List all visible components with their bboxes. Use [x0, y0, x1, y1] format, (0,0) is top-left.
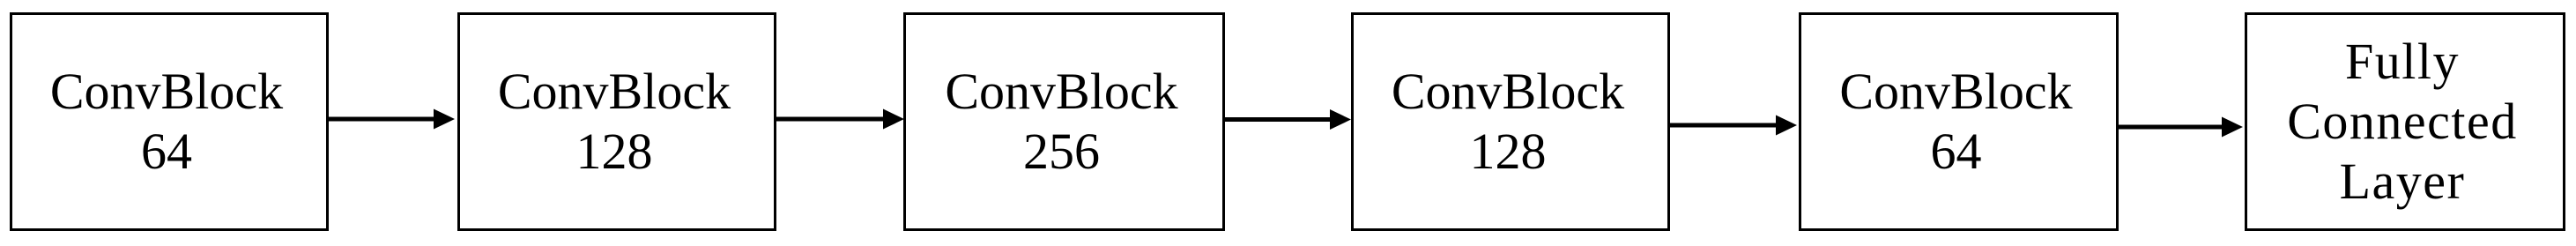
block Fully Connected Layer: [2245, 12, 2565, 231]
arrow 4: ConvBlock 128 to ConvBlock 64: [1667, 116, 1797, 136]
block ConvBlock 128 (second): [457, 12, 776, 231]
block ConvBlock 64 (first): [10, 12, 329, 231]
block ConvBlock 64 (fifth): [1799, 12, 2119, 231]
arrow 3: ConvBlock 256 to ConvBlock 128: [1222, 109, 1351, 130]
arrow 2: ConvBlock 128 to ConvBlock 256: [775, 109, 904, 130]
arrow 1: ConvBlock 64 to ConvBlock 128: [327, 109, 455, 130]
arrow 5: ConvBlock 64 to Fully Connected Layer: [2116, 117, 2243, 138]
block ConvBlock 256 (third): [903, 12, 1225, 231]
block ConvBlock 128 (fourth): [1351, 12, 1670, 231]
